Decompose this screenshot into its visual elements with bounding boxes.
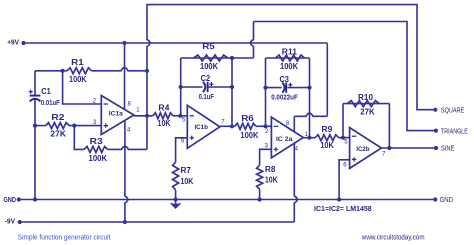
svg-text:10K: 10K: [158, 119, 171, 128]
wire C1 bottom to GND: [34, 99, 36, 199]
wire IC1a output lead: [134, 115, 153, 117]
svg-text:10K: 10K: [181, 177, 194, 186]
resistor R1: [67, 68, 92, 74]
node R5 / C2 right junction: [230, 56, 234, 60]
node TRIANGLE terminal: [434, 129, 438, 133]
wire R10 leads: [343, 103, 389, 105]
svg-text:100K: 100K: [89, 154, 108, 163]
svg-text:R5: R5: [202, 42, 215, 51]
svg-text:100K: 100K: [280, 62, 298, 71]
node IC1a pin4 / -9V junction: [123, 220, 127, 224]
svg-text:IC2b: IC2b: [356, 146, 369, 153]
svg-text:www.circuitstoday.com: www.circuitstoday.com: [361, 235, 425, 242]
node C1 / GND junction: [33, 197, 37, 201]
capacitor C3: [282, 82, 284, 92]
wire C1 top lead: [34, 71, 36, 96]
wire SQUARE rail: [147, 5, 435, 110]
svg-text:R9: R9: [322, 125, 333, 134]
wire IC2a pin3 lead: [260, 149, 272, 165]
node R2 left junction: [33, 124, 37, 128]
wire IC1b pin6 lead: [176, 138, 188, 162]
wire C2 left lead: [181, 86, 203, 88]
svg-text:R2: R2: [51, 113, 65, 122]
svg-text:SQUARE: SQUARE: [441, 107, 465, 114]
svg-text:0.01uF: 0.01uF: [41, 98, 60, 107]
wire IC2a output lead: [303, 137, 315, 139]
svg-text:R3: R3: [90, 137, 104, 146]
node R8 / GND junction: [258, 197, 262, 201]
svg-text:100K: 100K: [200, 62, 218, 71]
svg-text:Simple function generator circ: Simple function generator circuit: [18, 234, 111, 241]
svg-text:27K: 27K: [50, 130, 66, 139]
svg-text:R4: R4: [158, 104, 170, 113]
node R10 / output junction: [387, 146, 391, 150]
svg-text:100K: 100K: [69, 75, 87, 84]
wire R6 to pin2 IC2a: [256, 125, 271, 127]
svg-text:-9V: -9V: [5, 219, 16, 226]
op-amp IC1b plus: [190, 136, 194, 140]
op-amp IC2b minus: [352, 135, 356, 137]
svg-text:R1: R1: [71, 58, 84, 67]
node IC2a output: [307, 136, 311, 140]
wire R10 left riser: [342, 104, 344, 138]
svg-text:IC1=IC2= LM1458: IC1=IC2= LM1458: [314, 204, 372, 213]
wire R7 bottom lead: [175, 190, 177, 200]
node +9V / IC1a pin8 junction: [122, 41, 126, 45]
wire GND rail: [19, 199, 436, 201]
wire C2 right riser: [231, 58, 233, 126]
wire C2 block left riser: [180, 58, 182, 116]
svg-text:10K: 10K: [320, 141, 334, 150]
wire TRIANGLE riser: [251, 22, 254, 59]
svg-text:0.0022uF: 0.0022uF: [271, 92, 298, 101]
wire R3 feedback to output: [108, 146, 147, 149]
svg-text:10K: 10K: [265, 176, 278, 185]
wire R8 bottom lead: [259, 189, 261, 199]
node GND left terminal: [17, 197, 21, 201]
wire R2 to pin3: [69, 125, 101, 127]
resistor R10: [347, 101, 379, 107]
resistor R4: [153, 113, 173, 119]
wire +9V rail: [24, 42, 328, 44]
svg-text:C1: C1: [41, 87, 51, 96]
node R4 / C2 block junction: [178, 114, 182, 118]
op-amp IC1b minus: [190, 115, 194, 117]
node IC2b pin6 / GND junction: [337, 197, 341, 201]
op-amp IC1a minus: [104, 103, 108, 105]
node IC1a output: [145, 114, 149, 118]
node GND right terminal: [433, 197, 437, 201]
node IC1b output: [230, 124, 234, 128]
capacitor C2: [203, 82, 205, 92]
wire R9 to pin5 IC2b: [339, 137, 350, 139]
op-amp IC2a minus: [274, 125, 278, 127]
wire R11 block left riser: [265, 58, 267, 126]
node R1 / pin2 tap: [61, 69, 65, 73]
svg-text:GND: GND: [440, 197, 453, 204]
wire R4 to pin5: [173, 115, 187, 117]
svg-text:R8: R8: [265, 165, 276, 174]
svg-text:IC 2a: IC 2a: [276, 136, 293, 143]
svg-text:IC1b: IC1b: [194, 124, 208, 131]
node C3 right junction: [307, 86, 311, 90]
node C2 left junction: [179, 85, 183, 89]
op-amp U2 IC1b: [187, 105, 220, 148]
node R2 / R3 junction: [72, 124, 76, 128]
svg-text:R10: R10: [358, 93, 374, 102]
svg-text:GND: GND: [3, 197, 16, 204]
wire R2 left lead: [35, 125, 46, 127]
svg-text:R6: R6: [241, 114, 254, 123]
wire R5 top lead: [181, 57, 254, 59]
svg-text:SINE: SINE: [441, 146, 455, 153]
wire R1 to output riser: [92, 68, 148, 71]
node R6 / R11 block junction: [263, 124, 267, 128]
wire +9V right drop: [326, 43, 328, 116]
op-amp U3 IC2a: [271, 117, 303, 158]
node SINE terminal: [434, 146, 438, 150]
op-amp U1 IC1a: [101, 96, 134, 135]
capacitor C1: [30, 95, 41, 97]
svg-text:IC1a: IC1a: [109, 110, 123, 117]
wire C3 left lead: [266, 87, 282, 89]
wire R3 feedback riser: [146, 116, 148, 150]
svg-text:C2: C2: [201, 74, 211, 83]
svg-text:C3: C3: [279, 75, 289, 84]
wire R3 drop: [74, 126, 84, 150]
wire IC1a pin8 riser: [124, 43, 126, 109]
resistor R6: [235, 123, 256, 129]
resistor R2: [46, 123, 70, 129]
wire IC1b output lead: [220, 125, 235, 127]
wire R1 left lead: [35, 70, 67, 72]
resistor R9: [315, 135, 339, 141]
node SQUARE terminal: [433, 108, 437, 112]
wire IC2a pin8 riser: [293, 116, 295, 132]
resistor R3: [84, 146, 108, 152]
node C2 right junction: [230, 85, 234, 89]
wire SQUARE riser: [147, 35, 150, 116]
wire TRIANGLE rail: [254, 22, 436, 131]
resistor R5: [194, 55, 228, 61]
wire R11 right riser: [309, 58, 311, 138]
node R7 / GND junction: [174, 197, 178, 201]
wire IC2a pin8 feed: [294, 113, 327, 116]
node -9V terminal: [18, 220, 22, 224]
wire SINE output: [381, 147, 436, 149]
svg-text:TRIANGLE: TRIANGLE: [441, 128, 468, 135]
wire C2 right lead: [209, 86, 233, 88]
node +9V terminal: [21, 41, 25, 45]
wire IC2b pin6 lead: [339, 160, 350, 200]
wire -9V rail: [20, 221, 295, 223]
wire R11 top lead: [266, 57, 310, 59]
op-amp IC2b plus: [352, 157, 356, 161]
resistor R11: [275, 55, 304, 61]
resistor R7: [173, 162, 179, 190]
wire IC1a pin4 riser: [125, 121, 128, 222]
wire C3 right lead: [288, 87, 310, 89]
op-amp IC1a plus: [104, 123, 108, 127]
svg-text:+9V: +9V: [7, 38, 19, 47]
wire pin2 drop: [63, 71, 102, 104]
svg-text:100K: 100K: [240, 131, 258, 140]
node R1 / SQUARE riser junction: [145, 69, 149, 73]
ground symbol: [171, 203, 181, 208]
svg-text:R11: R11: [282, 47, 298, 56]
svg-text:27K: 27K: [360, 108, 375, 117]
svg-text:R7: R7: [181, 166, 192, 175]
op-amp IC2a plus: [274, 147, 278, 151]
svg-text:0.1uF: 0.1uF: [199, 92, 215, 101]
wire R10 right riser: [388, 104, 390, 148]
op-amp U4 IC2b: [350, 128, 382, 169]
wire IC2a pin4 riser: [294, 143, 297, 222]
resistor R8: [257, 165, 263, 189]
node C3 left junction: [263, 86, 267, 90]
node R9 / R10 junction: [341, 136, 345, 140]
